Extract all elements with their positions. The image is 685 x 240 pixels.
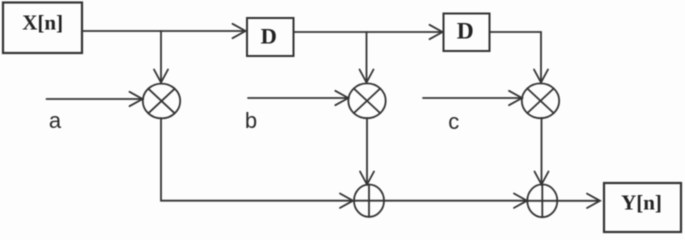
svg-text:b: b [245,108,257,133]
svg-text:D: D [261,24,277,49]
svg-text:a: a [49,108,62,133]
svg-text:c: c [448,109,459,134]
svg-text:X[n]: X[n] [22,11,63,35]
svg-text:Y[n]: Y[n] [621,191,662,215]
svg-text:D: D [457,18,474,44]
